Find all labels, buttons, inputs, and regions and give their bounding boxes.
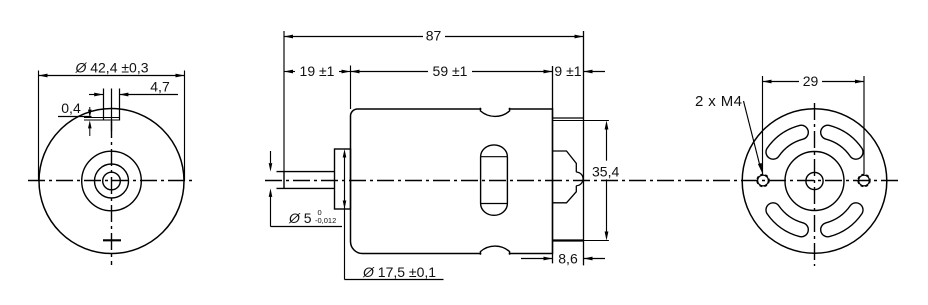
front bearing boss circle: [82, 151, 142, 211]
label 2 x M4 with leader: [695, 93, 762, 173]
body top scallop notch: [480, 107, 509, 116]
front bushing circle: [95, 164, 129, 198]
extension line shaft tip: [283, 31, 285, 172]
rear view outer circle: [742, 109, 887, 254]
M4 hole left: [757, 175, 769, 187]
dimension 4,7: [89, 79, 178, 97]
dimension 19 +-1: [284, 63, 351, 79]
endcap right edge: [583, 31, 585, 265]
svg-text:Ø 5: Ø 5: [288, 210, 312, 226]
rear vent slot SE: [821, 203, 863, 237]
rear view vertical centerline: [814, 103, 816, 266]
rear shaft end circle: [806, 172, 823, 189]
svg-text:-0,012: -0,012: [315, 216, 336, 225]
endcap top rim: [553, 118, 584, 121]
M4 hole right: [858, 175, 870, 187]
shaft circle: [103, 172, 121, 190]
dimension 0,4: [58, 100, 92, 136]
dimension dia 42,4 +-0,3: [39, 59, 185, 181]
svg-text:Ø 17,5 ±0,1: Ø 17,5 ±0,1: [362, 264, 436, 280]
svg-text:59 ±1: 59 ±1: [433, 63, 468, 79]
breather notch: [84, 89, 120, 132]
motor body outline: [351, 109, 553, 254]
rear vent slot SW: [766, 203, 808, 237]
extension line body front: [350, 66, 352, 110]
rear boss circle: [785, 152, 844, 211]
side/rear shared horizontal centerline: [265, 180, 899, 182]
svg-text:9 ±1: 9 ±1: [554, 63, 581, 79]
svg-text:8,6: 8,6: [558, 251, 578, 267]
dimension dia 17,5 +-0,1: [343, 149, 444, 280]
brush holder bump: [553, 151, 584, 203]
dimension 35,4: [584, 121, 620, 241]
svg-text:0,4: 0,4: [61, 100, 81, 116]
front view horizontal centerline: [28, 180, 194, 182]
dimension 8,6: [521, 251, 605, 267]
bottom seam tick: [103, 239, 121, 241]
shaft: [277, 172, 335, 189]
dimension 59 +-1: [351, 63, 553, 79]
front collar (dia 17.5): [335, 149, 351, 209]
svg-text:4,7: 4,7: [150, 79, 170, 95]
dimension 29: [763, 73, 865, 174]
dimension 9 +-1: [554, 63, 605, 79]
svg-text:2 x M4: 2 x M4: [695, 93, 742, 110]
svg-text:87: 87: [426, 28, 442, 44]
svg-text:29: 29: [803, 73, 819, 89]
endcap bottom edge: [553, 239, 584, 241]
front view vertical centerline: [111, 121, 113, 265]
body/endcap joint line: [552, 66, 554, 263]
svg-text:35,4: 35,4: [592, 163, 619, 179]
svg-text:19 ±1: 19 ±1: [300, 63, 335, 79]
body stadium vent hole: [481, 145, 508, 215]
dimension 87: [284, 28, 584, 44]
dimension dia 5 0/-0,012: [269, 151, 342, 227]
rear vent slot NW: [766, 125, 808, 159]
svg-text:Ø 42,4 ±0,3: Ø 42,4 ±0,3: [74, 59, 148, 75]
rear vent slot NE: [821, 125, 863, 159]
front view outer circle (body dia 42.4): [39, 109, 184, 254]
body bottom scallop notch: [480, 246, 509, 255]
